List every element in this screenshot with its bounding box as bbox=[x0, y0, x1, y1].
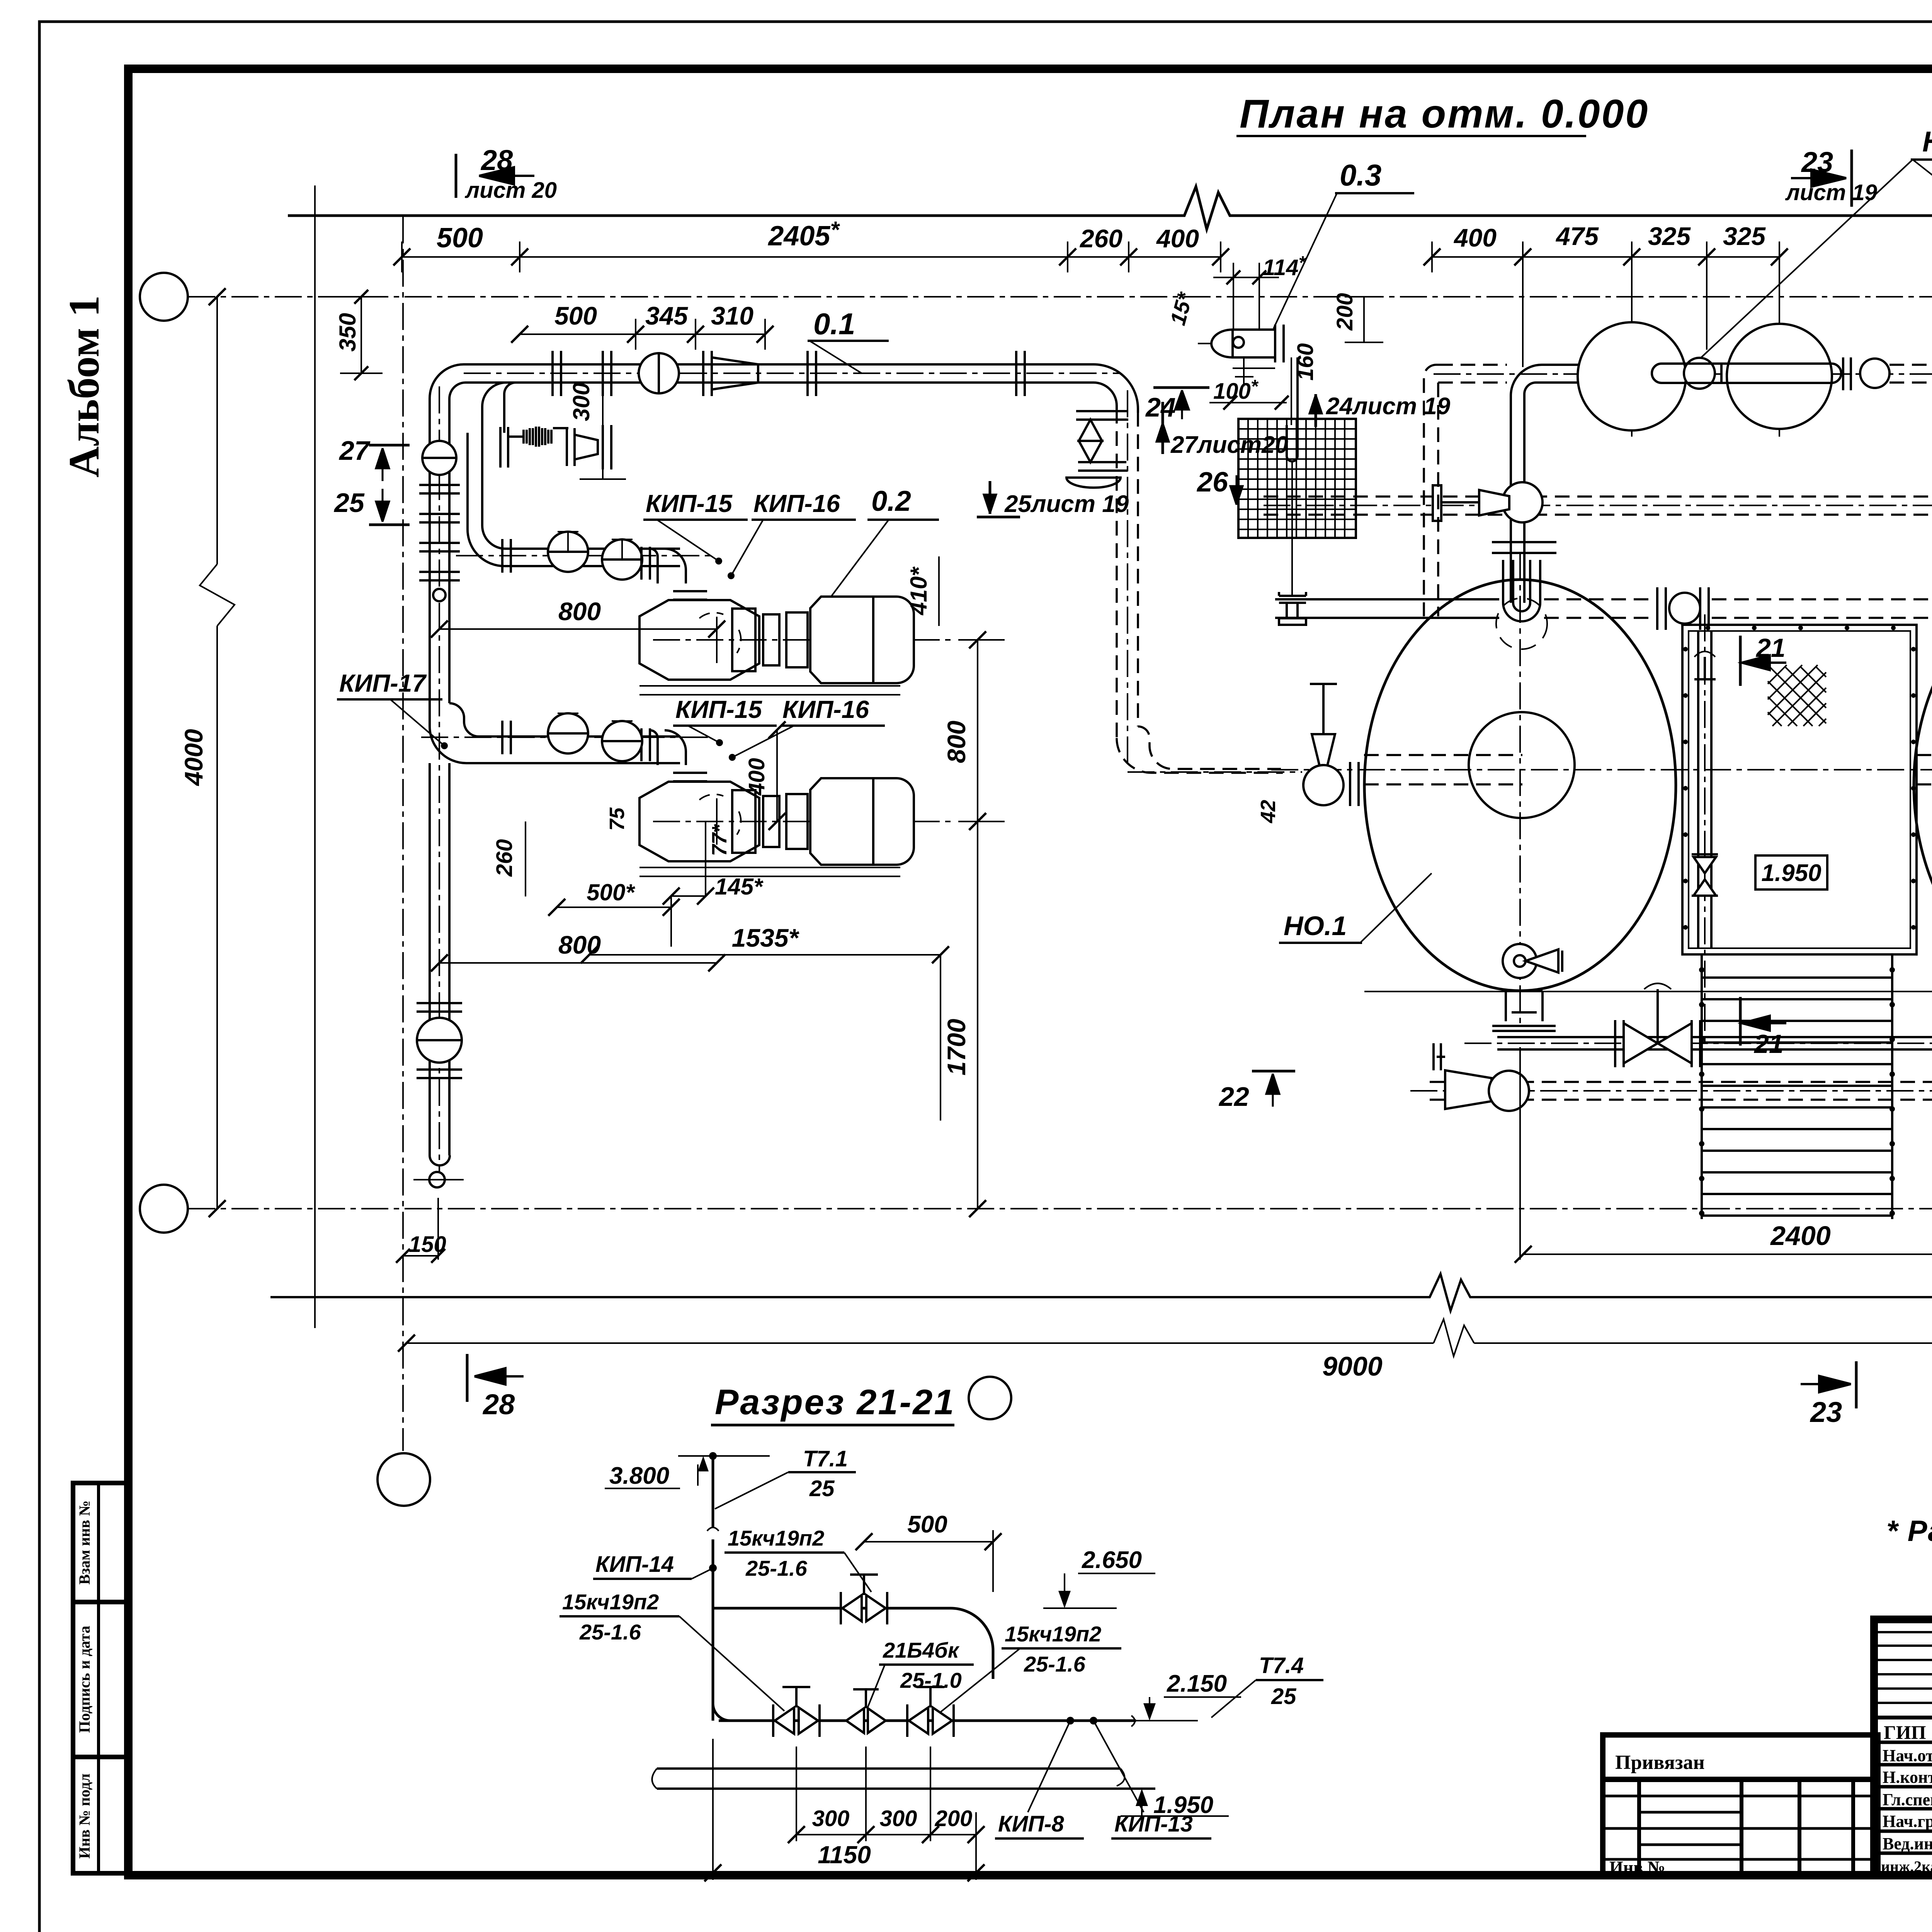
ladder rail dots bbox=[1699, 967, 1895, 1216]
reducer on 0.1 bbox=[712, 357, 758, 389]
platform edge dots bbox=[1683, 626, 1916, 930]
flange pair below valve bbox=[417, 1070, 462, 1078]
small connector circle b bbox=[1860, 359, 1889, 388]
marker 27 arrow bbox=[338, 435, 410, 481]
svg-text:42: 42 bbox=[1257, 800, 1280, 823]
KIP-15 KIP-16 0.2 labels upper bbox=[643, 485, 939, 612]
svg-text:1.950: 1.950 bbox=[1761, 860, 1821, 886]
ball valve low on pipe A bbox=[417, 1018, 462, 1063]
svg-text:25-1.0: 25-1.0 bbox=[900, 1668, 962, 1692]
svg-text:325: 325 bbox=[1723, 222, 1766, 250]
angle valve left of tank 1 bbox=[1303, 684, 1359, 806]
ball valve r2 v2 bbox=[602, 721, 642, 761]
svg-text:27: 27 bbox=[338, 435, 371, 466]
svg-text:410*: 410* bbox=[906, 566, 932, 616]
top pipe row y1575 tank1 to valve bbox=[1544, 599, 1656, 618]
svg-text:9000: 9000 bbox=[1322, 1351, 1383, 1381]
title block signature grid bbox=[1874, 1619, 1932, 1875]
marker 25 лист 19 bbox=[977, 481, 1129, 517]
dim 500 section bbox=[855, 1511, 1002, 1592]
main pipe 0.1 horizontal run bbox=[464, 364, 1121, 383]
section marker 21 bottom bbox=[1740, 997, 1786, 1059]
hidden pipe from 0.1 down bbox=[1117, 390, 1302, 773]
marker 27 лист 20 bbox=[1156, 402, 1288, 458]
valve on upper section pipe bbox=[841, 1575, 887, 1624]
svg-text:КИП-14: КИП-14 bbox=[595, 1552, 674, 1577]
svg-text:Инв №: Инв № bbox=[1609, 1857, 1665, 1877]
level mark 3.800 bbox=[605, 1456, 770, 1489]
axis bubble row 1 bbox=[140, 273, 188, 321]
tank HO.1 left ellipse bbox=[1364, 580, 1676, 991]
callout КИП-14 bbox=[593, 1552, 717, 1579]
svg-text:21Б4бк: 21Б4бк bbox=[883, 1638, 960, 1662]
tank 1 drain nozzle bbox=[1503, 944, 1562, 978]
pipe A bottom cap bbox=[413, 1155, 464, 1187]
svg-text:0.3: 0.3 bbox=[1340, 158, 1381, 192]
marker 22 left plan bbox=[1218, 1071, 1295, 1112]
svg-text:0.1: 0.1 bbox=[813, 307, 855, 341]
grating square 26 bbox=[1238, 419, 1356, 538]
dim 1535* bottom bbox=[581, 923, 949, 1121]
svg-text:План на отм. 0.000: План на отм. 0.000 bbox=[1240, 92, 1649, 136]
svg-text:400: 400 bbox=[1156, 224, 1199, 253]
svg-text:350: 350 bbox=[335, 313, 361, 352]
valve on tank1 riser row 1308 bbox=[1433, 482, 1543, 522]
svg-text:Т7.4: Т7.4 bbox=[1259, 1653, 1304, 1678]
svg-text:800: 800 bbox=[942, 721, 971, 763]
signature row ГИП Ляпусов bbox=[1884, 1721, 1932, 1743]
svg-text:Инв № подл: Инв № подл bbox=[76, 1774, 93, 1859]
title block sub-table (Привязан / Инв №) bbox=[1603, 1735, 1878, 1875]
label КИП-8 bbox=[995, 1811, 1084, 1838]
dim row 300 300 200 bbox=[788, 1747, 985, 1880]
hidden pipe across tank 1 bbox=[1364, 755, 1522, 784]
svg-text:4000: 4000 bbox=[179, 729, 208, 786]
level mark 1.950 section bbox=[1121, 1789, 1229, 1818]
dim 145* bottom bbox=[663, 821, 764, 947]
svg-text:260: 260 bbox=[492, 839, 517, 877]
svg-text:КИП-13: КИП-13 bbox=[1114, 1811, 1193, 1837]
signature row Нач.гр. Малыгина bbox=[1883, 1812, 1932, 1831]
dim 100* bbox=[1209, 376, 1289, 410]
flange pair f2 on 0.1 bbox=[603, 351, 611, 396]
damper circle centerlines bbox=[1632, 272, 1932, 437]
ball valve r1 v1 bbox=[548, 532, 588, 572]
svg-text:24: 24 bbox=[1145, 392, 1176, 422]
dim 150 bottom left bbox=[396, 1198, 446, 1263]
section riser pipe bbox=[707, 1452, 719, 1721]
svg-text:КИП-16: КИП-16 bbox=[782, 696, 869, 723]
axis column left centerline bbox=[402, 216, 404, 1451]
tee end below grating bbox=[1279, 592, 1306, 625]
svg-text:Подпись и дата: Подпись и дата bbox=[76, 1626, 93, 1733]
signature row Н.контр Невретдинова bbox=[1883, 1768, 1932, 1787]
svg-text:475: 475 bbox=[1555, 222, 1599, 250]
pump unit 1 octagon bbox=[639, 597, 951, 695]
dim line top group left: 500 / 2405* / 260 / 400 bbox=[393, 241, 1229, 272]
left attribute strip frame bbox=[73, 1483, 128, 1873]
signature row Гл.спец Невретдинова bbox=[1883, 1790, 1932, 1809]
svg-text:28: 28 bbox=[480, 144, 513, 176]
svg-text:25-1.6: 25-1.6 bbox=[579, 1620, 641, 1644]
svg-text:25-1.6: 25-1.6 bbox=[745, 1556, 808, 1580]
signature row инж.2кат Смирнова bbox=[1881, 1857, 1932, 1876]
pipe end squiggle bbox=[1131, 1716, 1135, 1726]
marker 28 bottom bbox=[467, 1354, 524, 1420]
svg-text:300: 300 bbox=[568, 383, 594, 421]
pipe 0.1 right elbow down bbox=[1094, 364, 1138, 413]
svg-text:Т7.1: Т7.1 bbox=[803, 1446, 848, 1471]
ball valve on pipe A bbox=[422, 441, 456, 475]
dim 410* vertical bbox=[906, 556, 939, 626]
svg-text:2405*: 2405* bbox=[767, 217, 840, 252]
svg-text:500*: 500* bbox=[587, 879, 635, 905]
small connector circle a bbox=[1684, 358, 1715, 389]
flange pair f3 on 0.1 bbox=[703, 351, 712, 396]
platform internal pipe vertical bbox=[1698, 614, 1711, 1043]
dim 114* bbox=[1213, 253, 1306, 328]
flange stack on pipe A bbox=[419, 485, 460, 601]
dim row 500 345 310 bbox=[511, 301, 774, 350]
svg-text:21: 21 bbox=[1755, 633, 1786, 663]
svg-text:25-1.6: 25-1.6 bbox=[1024, 1652, 1086, 1676]
svg-text:НО 2: НО 2 bbox=[1922, 126, 1932, 158]
svg-text:26: 26 bbox=[1196, 467, 1228, 498]
svg-text:2.650: 2.650 bbox=[1082, 1547, 1142, 1573]
svg-text:КИП-15: КИП-15 bbox=[646, 490, 733, 517]
bellows valve assembly top bbox=[500, 425, 611, 469]
svg-text:Взам инв №: Взам инв № bbox=[76, 1500, 93, 1585]
svg-text:25: 25 bbox=[809, 1476, 835, 1501]
upper section pipe with corner bbox=[713, 1608, 993, 1679]
svg-text:23: 23 bbox=[1801, 146, 1833, 178]
instrument drop through grating bbox=[1287, 357, 1298, 596]
svg-text:28: 28 bbox=[482, 1388, 515, 1420]
svg-text:Гл.спец: Гл.спец bbox=[1883, 1790, 1932, 1809]
callout 15кч19п2 25-1.6 left bbox=[560, 1590, 784, 1711]
building bottom wall line bbox=[270, 1274, 1932, 1311]
svg-text:25: 25 bbox=[333, 488, 365, 518]
svg-text:145*: 145* bbox=[715, 874, 764, 900]
signature row Вед.инж Воеводина bbox=[1883, 1833, 1932, 1855]
gate valve below 0.1 elbow bbox=[1066, 411, 1128, 488]
damper vessel circle 1 bbox=[1578, 322, 1686, 430]
run1 valve stems bbox=[558, 532, 633, 560]
svg-text:лист 20: лист 20 bbox=[464, 178, 557, 203]
section marker 23 top (лист 19) bbox=[1785, 146, 1877, 207]
svg-text:КИП-8: КИП-8 bbox=[998, 1811, 1064, 1837]
svg-text:1535*: 1535* bbox=[732, 923, 800, 952]
title underline bbox=[1236, 135, 1586, 137]
dim 4000 vertical bbox=[179, 288, 235, 1217]
marker 26 with arrow bbox=[1196, 467, 1243, 505]
bowtie valve on platform pipe bbox=[1692, 854, 1718, 896]
axis row 1 centerline bbox=[188, 296, 1932, 298]
marker 24 bbox=[1145, 388, 1209, 422]
platform outline double bbox=[1682, 625, 1917, 954]
svg-text:1700: 1700 bbox=[942, 1019, 971, 1075]
KIP-17 label bbox=[337, 669, 448, 749]
pipe 0.1 left elbow down bbox=[430, 364, 483, 433]
dim 1150 bbox=[704, 1739, 985, 1881]
callout Т7.1/25 bbox=[715, 1446, 856, 1509]
svg-text:500: 500 bbox=[907, 1511, 947, 1538]
top pipe row y1575 left of tank1 bbox=[1275, 599, 1499, 618]
marker 25 arrow bbox=[333, 488, 410, 525]
callout 15кч19п2 25-1.6 right bbox=[941, 1622, 1121, 1712]
svg-text:800: 800 bbox=[558, 597, 601, 626]
flange pair f5 on 0.1 bbox=[1016, 351, 1025, 396]
svg-text:200: 200 bbox=[935, 1806, 973, 1831]
damper circle row pipe centerline bbox=[1434, 373, 1932, 375]
svg-text:260: 260 bbox=[1079, 224, 1122, 253]
svg-text:2.150: 2.150 bbox=[1167, 1670, 1227, 1697]
building left edge line bbox=[314, 185, 316, 1328]
section title Разрез 21-21 bbox=[711, 1377, 1011, 1425]
building top wall line bbox=[288, 187, 1932, 229]
svg-text:инж.2кат: инж.2кат bbox=[1881, 1858, 1932, 1875]
section marker 28 top (лист 20) bbox=[456, 144, 557, 203]
section marker 21 top bbox=[1740, 633, 1786, 686]
pipe A lower elbow to run 2 bbox=[421, 703, 711, 763]
level mark 2.650 bbox=[1043, 1547, 1155, 1608]
svg-text:77*: 77* bbox=[708, 823, 731, 856]
ladder rails bbox=[1702, 954, 1892, 1219]
axis bubble bottom left bbox=[378, 1453, 430, 1506]
svg-text:310: 310 bbox=[711, 301, 753, 330]
svg-text:КИП-16: КИП-16 bbox=[753, 490, 840, 517]
valve L3 on lower pipe bbox=[907, 1687, 954, 1737]
pipe row D dashed under tanks bbox=[1410, 1082, 1932, 1100]
ball valve r2 v1 bbox=[548, 713, 588, 753]
marker 24 лист 19 bbox=[1310, 393, 1451, 427]
tank HO.1 right ellipse bbox=[1914, 580, 1932, 991]
label 0.1 with leader bbox=[808, 307, 889, 373]
dim 2400 1700 line bbox=[1515, 1047, 1932, 1263]
flange pair on pipe A low bbox=[417, 1003, 462, 1012]
elbow into pump 2 bbox=[650, 730, 686, 765]
svg-text:лист 19: лист 19 bbox=[1785, 180, 1877, 205]
svg-text:23: 23 bbox=[1810, 1396, 1842, 1428]
callout Т7.4/25 bbox=[1211, 1653, 1323, 1718]
label КИП-13 bbox=[1111, 1811, 1211, 1838]
dim 260 rotated bbox=[492, 821, 526, 896]
svg-text:27лист20: 27лист20 bbox=[1170, 432, 1288, 458]
pipe between groups dashed bbox=[1889, 365, 1932, 383]
svg-text:0.2: 0.2 bbox=[871, 485, 911, 517]
flanged valve on row 1575 a bbox=[1657, 587, 1709, 630]
label HO.1 left bbox=[1279, 873, 1432, 943]
svg-text:Вед.инж: Вед.инж bbox=[1883, 1834, 1932, 1853]
flange pair f4 on 0.1 bbox=[808, 351, 816, 396]
svg-text:Нач.гр.: Нач.гр. bbox=[1883, 1812, 1932, 1831]
svg-text:Альбом 1: Альбом 1 bbox=[60, 295, 108, 478]
riser flange bars bbox=[1492, 542, 1556, 553]
lower section pipe bbox=[719, 1719, 1136, 1722]
axis bubble row 2 bbox=[140, 1185, 188, 1233]
svg-text:1150: 1150 bbox=[818, 1841, 871, 1869]
dim line top group mid: 400 / 475 / 325 / 325 bbox=[1423, 241, 1788, 367]
svg-text:300: 300 bbox=[812, 1806, 850, 1831]
run2 flange pair a bbox=[502, 721, 511, 754]
gate valve on row C bbox=[1615, 983, 1700, 1067]
top pipe row y1575 between tanks dashed bbox=[1712, 599, 1932, 618]
dim 800 vertical right bbox=[942, 631, 1005, 830]
tank 1 vertical centerline bbox=[1519, 553, 1521, 1028]
vessel 0.3 body bbox=[1198, 325, 1284, 386]
flange pair f1 on 0.1 bbox=[553, 351, 561, 396]
dim 400 vertical small bbox=[744, 721, 786, 830]
svg-text:* Размеры для справок: * Размеры для справок bbox=[1886, 1515, 1932, 1548]
svg-text:325: 325 bbox=[1648, 222, 1691, 250]
svg-text:22: 22 bbox=[1218, 1082, 1249, 1112]
lower pipe A single run bbox=[430, 763, 449, 1155]
elbow down from circle row to tank 1 bbox=[1511, 365, 1578, 603]
svg-text:15кч19п2: 15кч19п2 bbox=[728, 1526, 824, 1550]
svg-text:24лист 19: 24лист 19 bbox=[1326, 393, 1451, 420]
svg-text:25: 25 bbox=[1271, 1684, 1296, 1709]
hidden pipe platform to tank 2 bbox=[1917, 755, 1932, 784]
angle valve on row D left bbox=[1434, 1043, 1529, 1111]
callout 21Б4бк 25-1.0 bbox=[867, 1638, 974, 1708]
svg-text:25лист 19: 25лист 19 bbox=[1004, 491, 1129, 517]
svg-text:НО.1: НО.1 bbox=[1284, 911, 1347, 941]
valve handle on platform pipe bbox=[1694, 651, 1716, 680]
svg-text:400: 400 bbox=[1453, 223, 1497, 252]
U vent nozzle tank 1 bbox=[1496, 560, 1547, 649]
pipe row C under tanks bbox=[1464, 1037, 1932, 1049]
svg-text:2400: 2400 bbox=[1770, 1221, 1831, 1251]
pump2 inlet flanges bbox=[673, 773, 707, 781]
svg-text:Н.контр: Н.контр bbox=[1883, 1768, 1932, 1787]
dim 1700 vertical right bbox=[942, 821, 986, 1217]
svg-text:75: 75 bbox=[605, 807, 629, 831]
axis row 2 centerline bbox=[188, 1208, 1932, 1209]
valve L1 on lower pipe bbox=[773, 1687, 820, 1737]
run2 valve stems bbox=[558, 713, 633, 741]
dim 800 lower bbox=[431, 930, 725, 971]
pipe B elbow from 0.1 down bbox=[482, 383, 529, 433]
svg-text:200: 200 bbox=[1332, 293, 1357, 331]
KIP-15 KIP-16 labels lower bbox=[673, 696, 885, 761]
tank 1 drain bracket bbox=[1492, 991, 1556, 1031]
svg-text:3.800: 3.800 bbox=[609, 1463, 669, 1489]
dim 200 rotated bbox=[1332, 293, 1383, 342]
tank axis horizontal centerline bbox=[1271, 769, 1932, 770]
pump unit 2 octagon bbox=[639, 778, 951, 876]
tank HO.1 left manhole circle bbox=[1469, 712, 1575, 818]
run1 flange pair b bbox=[641, 547, 650, 580]
svg-text:ГИП: ГИП bbox=[1884, 1721, 1926, 1743]
platform hatch patch bbox=[1768, 665, 1826, 726]
svg-text:345: 345 bbox=[645, 301, 688, 330]
svg-text:15кч19п2: 15кч19п2 bbox=[1005, 1622, 1101, 1646]
dim 9000 line bbox=[398, 1319, 1932, 1444]
svg-text:Нач.отд: Нач.отд bbox=[1883, 1746, 1932, 1765]
svg-text:Привязан: Привязан bbox=[1615, 1752, 1705, 1774]
ball valve r1 v2 bbox=[602, 539, 642, 580]
signature row Нач.отд Ляпусов bbox=[1883, 1743, 1932, 1766]
svg-text:КИП-15: КИП-15 bbox=[675, 696, 762, 723]
svg-text:15кч19п2: 15кч19п2 bbox=[562, 1590, 659, 1614]
run1 flange pair a bbox=[502, 539, 511, 573]
pump1 inlet flanges bbox=[673, 591, 707, 600]
ball valve on 0.1 bbox=[639, 353, 679, 393]
floor slab lines bbox=[652, 1769, 1156, 1789]
dim 800 upper bbox=[431, 597, 725, 638]
svg-text:КИП-17: КИП-17 bbox=[339, 669, 427, 697]
hidden branch left of riser bbox=[1424, 365, 1507, 616]
label НО 2 with leaders bbox=[1685, 126, 1932, 373]
pipe row y1308 hidden bbox=[1264, 489, 1932, 522]
elbow into pump 1 bbox=[650, 549, 686, 583]
level box 1.950 bbox=[1755, 855, 1827, 889]
level mark 2.150 bbox=[1136, 1670, 1241, 1721]
marker 23 bottom bbox=[1801, 1361, 1856, 1428]
instrument line down from vessel bbox=[1291, 357, 1292, 425]
dim 350 rotated left bbox=[335, 290, 383, 380]
label 0.3 with leader bbox=[1274, 158, 1414, 328]
run2 flange pair b bbox=[641, 728, 650, 761]
svg-text:400: 400 bbox=[744, 758, 769, 796]
title block main frame bbox=[1874, 1619, 1932, 1875]
leader КИП-8 КИП-13 bbox=[1028, 1717, 1144, 1812]
svg-text:500: 500 bbox=[554, 301, 597, 330]
vertical pipe A left bbox=[430, 386, 449, 1182]
svg-text:300: 300 bbox=[880, 1806, 917, 1831]
lower pipe left corner bbox=[713, 1704, 730, 1721]
valve L2 on lower pipe bbox=[846, 1689, 886, 1733]
dim 500* bottom bbox=[548, 879, 680, 916]
connector pipe a-b bbox=[1652, 357, 1851, 390]
damper vessel circle 2 bbox=[1727, 324, 1832, 429]
svg-text:500: 500 bbox=[437, 223, 483, 253]
svg-text:Разрез 21-21: Разрез 21-21 bbox=[715, 1383, 956, 1422]
callout 15кч19п2 25-1.6 first bbox=[724, 1526, 871, 1592]
pipe B vertical + horizontal run 1 bbox=[456, 433, 711, 566]
dim 300 rotated bbox=[568, 383, 626, 479]
foundation line under tanks bbox=[1364, 986, 1932, 997]
ladder rungs bbox=[1702, 978, 1892, 1216]
